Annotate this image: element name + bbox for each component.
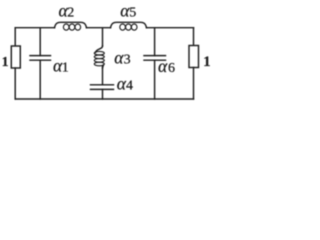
wire middle branch mid lead: [102, 67, 104, 85]
capacitor a6 top plate: [144, 55, 166, 57]
label alpha3: [114, 48, 130, 68]
inductor a3 exit wire: [102, 65, 105, 68]
svg-text:6: 6: [168, 61, 175, 76]
wire cap-a6 bottom lead: [154, 60, 156, 99]
svg-text:2: 2: [67, 5, 74, 20]
wire top rail middle segment: [87, 27, 111, 29]
label alpha6: [158, 56, 175, 76]
wire top rail right segment: [147, 27, 194, 29]
inductor a2 envelope: [55, 22, 87, 27]
wire middle branch bottom lead: [102, 89, 104, 99]
inductor a3 loop 3: [94, 59, 104, 63]
wire cap-a1 bottom lead: [39, 60, 41, 99]
capacitor a1 bottom plate: [30, 59, 51, 61]
resistor R-right body: [189, 46, 199, 68]
wire cap-a1 top lead: [39, 28, 41, 56]
capacitor a6 bottom plate: [144, 59, 166, 61]
inductor a3 loop 4: [94, 62, 104, 66]
inductor a5 envelope: [111, 22, 147, 27]
svg-text:1: 1: [62, 60, 69, 75]
inductor a3 loop 2: [94, 55, 104, 59]
svg-text:4: 4: [126, 79, 133, 94]
svg-text:1: 1: [2, 54, 9, 69]
svg-text:α: α: [158, 56, 168, 76]
wire right branch bottom: [193, 68, 195, 100]
capacitor a1 top plate: [30, 55, 51, 57]
label alpha1: [53, 55, 69, 75]
svg-text:1: 1: [203, 54, 210, 70]
wire left branch top: [14, 28, 16, 46]
inductor a2 loop 2: [69, 24, 75, 30]
resistor R-left body: [11, 46, 20, 68]
inductor a2 loop 1: [63, 24, 69, 30]
wire cap-a6 top lead: [154, 28, 156, 56]
inductor a5 loop 3: [131, 24, 137, 30]
wire middle branch top lead: [102, 28, 104, 46]
inductor a5 loop 2: [126, 24, 132, 30]
label alpha5: [120, 0, 136, 20]
svg-text:5: 5: [129, 5, 136, 20]
wire top rail left segment: [15, 27, 54, 29]
wire left branch bottom: [14, 68, 16, 99]
inductor a3 entry curve: [96, 46, 103, 53]
svg-text:3: 3: [124, 53, 131, 68]
capacitor a4 bottom plate: [91, 88, 114, 90]
capacitor a4 top plate: [91, 84, 114, 86]
inductor a3 loop 1: [94, 51, 104, 55]
inductor a5 loop 1: [120, 24, 126, 30]
inductor a2 loop 3: [75, 24, 81, 30]
wire right branch top: [193, 28, 195, 46]
label alpha2: [59, 0, 75, 20]
wire bottom rail: [15, 98, 193, 100]
label alpha4: [117, 74, 133, 94]
